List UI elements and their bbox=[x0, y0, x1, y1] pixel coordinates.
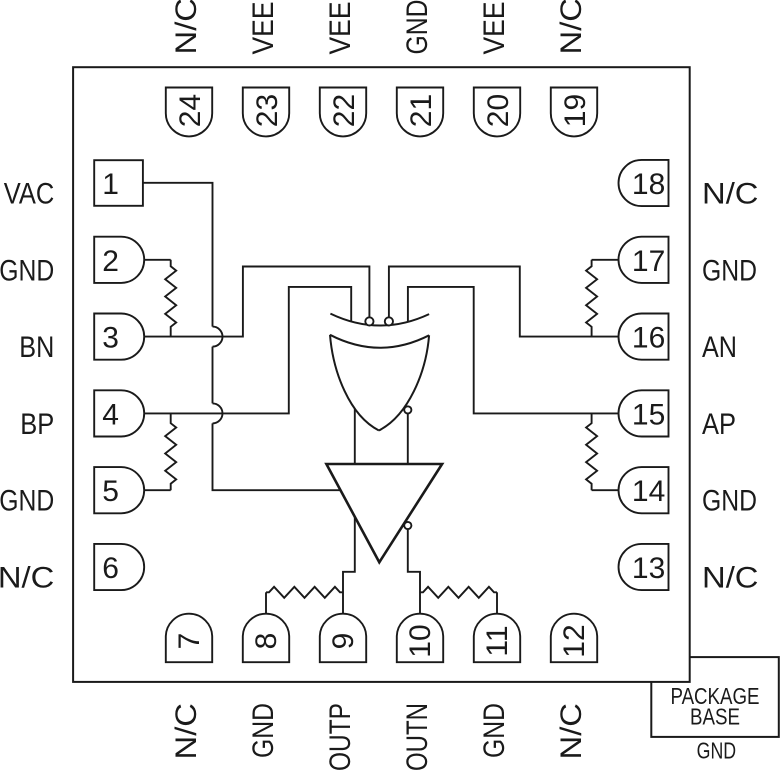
svg-text:GND: GND bbox=[247, 703, 280, 758]
svg-text:21: 21 bbox=[405, 94, 438, 127]
svg-text:GND: GND bbox=[697, 738, 737, 764]
svg-text:5: 5 bbox=[102, 475, 119, 508]
svg-text:N/C: N/C bbox=[170, 703, 203, 760]
svg-text:22: 22 bbox=[328, 94, 361, 127]
svg-text:9: 9 bbox=[327, 633, 360, 650]
svg-text:18: 18 bbox=[632, 168, 665, 201]
svg-text:AN: AN bbox=[702, 331, 737, 364]
svg-text:N/C: N/C bbox=[170, 0, 203, 55]
svg-text:10: 10 bbox=[404, 624, 437, 657]
svg-text:OUTP: OUTP bbox=[324, 703, 357, 771]
svg-text:N/C: N/C bbox=[555, 0, 588, 55]
svg-text:N/C: N/C bbox=[702, 562, 759, 595]
svg-text:16: 16 bbox=[632, 322, 665, 355]
svg-text:8: 8 bbox=[250, 633, 283, 650]
svg-text:12: 12 bbox=[558, 624, 591, 657]
svg-text:23: 23 bbox=[251, 94, 284, 127]
svg-text:14: 14 bbox=[632, 475, 665, 508]
svg-text:GND: GND bbox=[0, 254, 54, 287]
svg-text:AP: AP bbox=[702, 408, 736, 441]
svg-text:7: 7 bbox=[173, 633, 206, 650]
svg-text:N/C: N/C bbox=[0, 562, 54, 595]
svg-text:GND: GND bbox=[0, 485, 54, 518]
svg-text:VAC: VAC bbox=[4, 178, 55, 211]
svg-text:19: 19 bbox=[559, 94, 592, 127]
svg-text:3: 3 bbox=[102, 322, 119, 355]
svg-text:VEE: VEE bbox=[478, 2, 511, 55]
svg-text:15: 15 bbox=[632, 398, 665, 431]
svg-text:4: 4 bbox=[102, 398, 119, 431]
svg-text:GND: GND bbox=[702, 485, 757, 518]
svg-text:20: 20 bbox=[482, 94, 515, 127]
svg-text:N/C: N/C bbox=[555, 703, 588, 760]
svg-text:N/C: N/C bbox=[702, 178, 759, 211]
svg-text:VEE: VEE bbox=[247, 2, 280, 55]
svg-text:GND: GND bbox=[478, 703, 511, 758]
svg-text:13: 13 bbox=[632, 552, 665, 585]
svg-text:OUTN: OUTN bbox=[401, 703, 434, 771]
svg-text:BN: BN bbox=[19, 331, 54, 364]
svg-text:BASE: BASE bbox=[690, 704, 740, 730]
svg-text:GND: GND bbox=[401, 0, 434, 55]
svg-text:11: 11 bbox=[481, 625, 514, 656]
svg-text:GND: GND bbox=[702, 254, 757, 287]
svg-text:1: 1 bbox=[102, 168, 119, 201]
svg-text:2: 2 bbox=[102, 245, 119, 278]
svg-text:VEE: VEE bbox=[324, 2, 357, 55]
svg-text:6: 6 bbox=[102, 552, 119, 585]
svg-text:17: 17 bbox=[632, 245, 665, 278]
svg-text:BP: BP bbox=[20, 408, 54, 441]
svg-text:24: 24 bbox=[174, 94, 207, 127]
